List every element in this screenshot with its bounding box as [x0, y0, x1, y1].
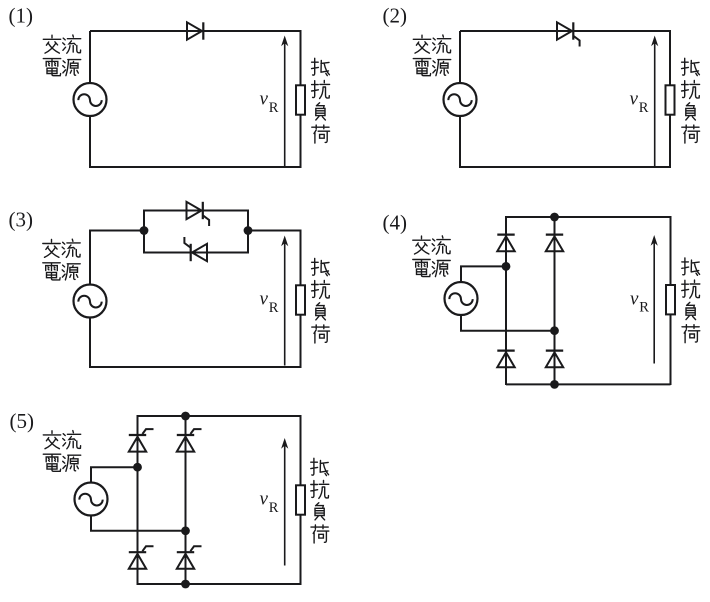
- thyristor T2 (top branch): [187, 202, 202, 219]
- wire right rail upper (circuit 4): [670, 216, 672, 285]
- wire bottom (circuit 2): [459, 166, 670, 168]
- label AC source (circuit 2): [413, 35, 450, 76]
- wire left upper (circuit 1): [89, 31, 91, 83]
- wire source top (circuit 4): [461, 266, 506, 283]
- ac source V3: [74, 285, 107, 318]
- thyristor T5 (upper right): [177, 434, 194, 436]
- arrow vR (circuit 5): [284, 441, 286, 566]
- ac source V5: [75, 483, 108, 516]
- node right junction (circuit 3): [244, 226, 253, 235]
- node top junction (circuit 5): [181, 412, 190, 421]
- svg-text:v: v: [260, 289, 269, 310]
- wire right lower (circuit 1): [300, 115, 302, 168]
- ac source V4: [445, 282, 478, 315]
- resistor load (circuit 5): [296, 485, 305, 514]
- wire right upper (circuit 2): [669, 30, 671, 85]
- label resistive load (circuit 4): [682, 258, 700, 343]
- ac source V1: [74, 83, 107, 116]
- node bottom junction (circuit 4): [550, 380, 559, 389]
- svg-text:R: R: [269, 300, 279, 316]
- thyristor T3 (bottom branch): [192, 244, 207, 261]
- wire left lower (circuit 1): [89, 116, 91, 168]
- svg-text:R: R: [639, 300, 649, 316]
- label resistive load (circuit 3): [312, 258, 330, 343]
- thyristor T1: [557, 22, 572, 39]
- node mid-left junction (circuit 5): [133, 463, 142, 472]
- node mid-right junction (circuit 4): [550, 326, 559, 335]
- wire right leg (circuit 5): [185, 415, 187, 585]
- resistor load (circuit 4): [666, 285, 675, 314]
- label resistive load (circuit 5): [311, 458, 329, 543]
- thyristor T6 (lower left): [129, 551, 146, 553]
- wire left leg (circuit 4): [505, 216, 507, 385]
- svg-text:v: v: [630, 288, 639, 309]
- resistor load (circuit 2): [666, 85, 675, 114]
- label AC source (circuit 1): [43, 35, 80, 76]
- ac source V2: [444, 83, 477, 116]
- wire top (circuit 1): [90, 30, 301, 32]
- wire bottom (circuit 1): [89, 166, 301, 168]
- svg-text:(4): (4): [383, 211, 408, 235]
- diode D1: [187, 22, 202, 39]
- wire right rail upper (circuit 5): [300, 415, 302, 485]
- label AC source (circuit 3): [43, 239, 80, 280]
- wire bottom rail (circuit 4): [506, 383, 671, 385]
- wire bottom rail (circuit 5): [138, 583, 302, 585]
- wire source bottom (circuit 4): [461, 315, 555, 331]
- thyristor T4 (upper left): [129, 434, 146, 436]
- svg-text:v: v: [260, 89, 269, 110]
- wire right leg (circuit 4): [554, 216, 556, 385]
- wire right lower (circuit 2): [669, 115, 671, 168]
- wire left upper (circuit 2): [459, 31, 461, 83]
- wire left lower (circuit 3): [89, 318, 91, 369]
- svg-text:R: R: [639, 100, 649, 116]
- node mid-left junction (circuit 4): [502, 262, 511, 271]
- wire right lower (circuit 3): [300, 315, 302, 368]
- svg-text:(3): (3): [9, 208, 34, 232]
- label resistive load (circuit 2): [682, 58, 700, 143]
- svg-text:(2): (2): [383, 3, 408, 27]
- node top junction (circuit 4): [550, 213, 559, 222]
- thyristor T7 (lower right): [177, 551, 194, 553]
- svg-text:R: R: [269, 500, 279, 516]
- wire right node to rail (circuit 3): [248, 230, 301, 232]
- diode D2 (upper left): [497, 234, 514, 236]
- diode D5 (lower right): [546, 350, 563, 352]
- arrow vR (circuit 1): [284, 39, 286, 167]
- wire left leg (circuit 5): [137, 415, 139, 585]
- label resistive load (circuit 1): [312, 58, 330, 143]
- wire top rail (circuit 5): [138, 415, 302, 417]
- diode D3 (upper right): [546, 234, 563, 236]
- arrow vR (circuit 4): [653, 238, 655, 364]
- node mid-right junction (circuit 5): [181, 526, 190, 535]
- diode D4 (lower left): [497, 350, 514, 352]
- wire right rail lower (circuit 5): [300, 515, 302, 586]
- wire source top (circuit 5): [91, 467, 138, 483]
- wire right upper (circuit 3): [300, 230, 302, 286]
- wire right upper (circuit 1): [300, 30, 302, 85]
- node left junction (circuit 3): [140, 226, 149, 235]
- svg-text:(1): (1): [9, 3, 34, 27]
- svg-text:v: v: [630, 89, 639, 110]
- wire top (circuit 2): [460, 30, 670, 32]
- resistor load (circuit 3): [296, 285, 305, 314]
- arrow vR (circuit 2): [654, 39, 656, 167]
- wire right rail lower (circuit 4): [670, 314, 672, 385]
- wire bottom (circuit 3): [89, 366, 301, 368]
- wire source to left node (circuit 3): [90, 231, 144, 285]
- wire top rail (circuit 4): [506, 216, 671, 218]
- wire branch box (circuit 3): [144, 211, 248, 253]
- label AC source (circuit 5): [43, 431, 80, 472]
- arrow vR (circuit 3): [284, 239, 286, 366]
- svg-text:R: R: [269, 100, 279, 116]
- wire left lower (circuit 2): [459, 116, 461, 168]
- wire source bottom (circuit 5): [91, 515, 186, 531]
- svg-text:v: v: [260, 489, 269, 510]
- label AC source (circuit 4): [413, 236, 450, 277]
- node bottom junction (circuit 5): [181, 580, 190, 589]
- svg-text:(5): (5): [10, 409, 35, 433]
- resistor load (circuit 1): [296, 85, 305, 114]
